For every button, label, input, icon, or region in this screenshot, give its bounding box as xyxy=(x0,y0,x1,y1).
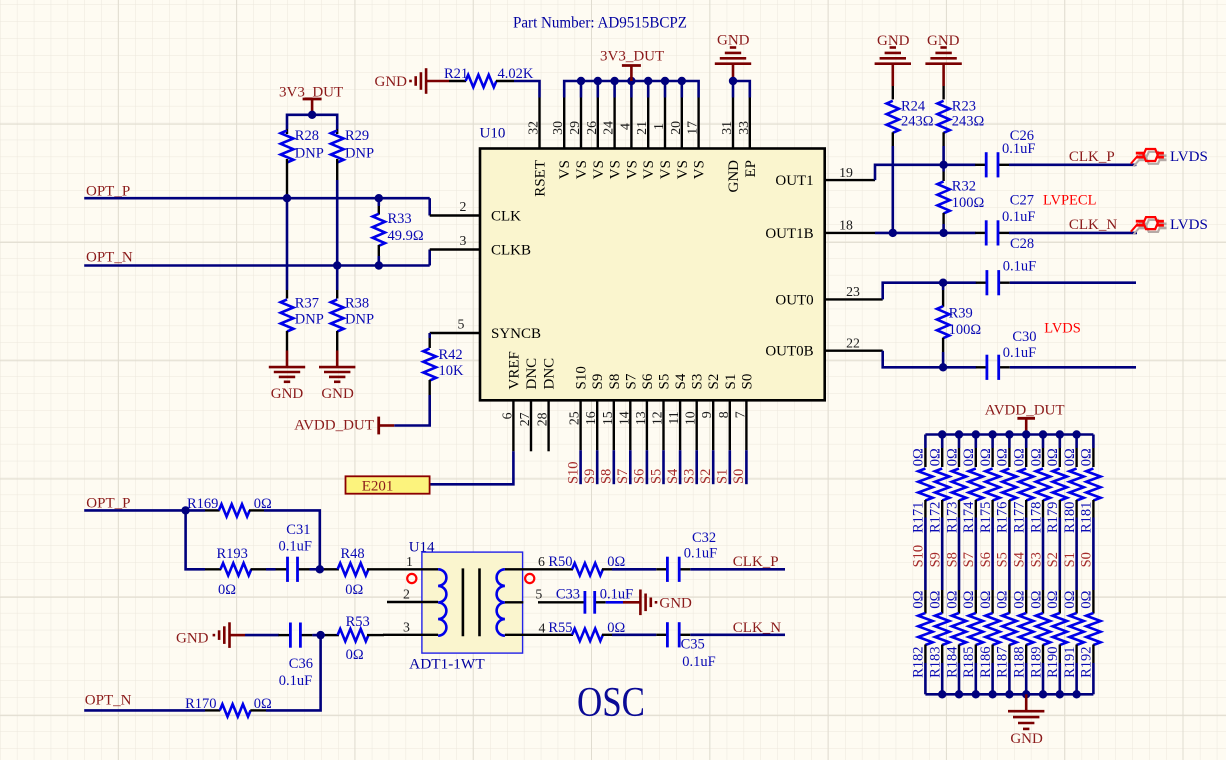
svg-text:S6: S6 xyxy=(632,469,648,484)
svg-text:S7: S7 xyxy=(615,469,631,484)
phase dot left xyxy=(407,574,416,583)
secondary winding xyxy=(497,569,505,635)
svg-text:S9: S9 xyxy=(928,552,944,567)
pin 6 VREF xyxy=(512,400,514,451)
resistor R37 xyxy=(286,290,288,299)
pin 29 VS xyxy=(580,98,582,149)
svg-text:S5: S5 xyxy=(995,552,1011,567)
svg-text:GND: GND xyxy=(659,596,692,612)
pin 5 SYNCB xyxy=(430,332,480,334)
svg-text:243Ω: 243Ω xyxy=(901,114,934,130)
pin 30 VS xyxy=(563,98,565,149)
svg-text:R29: R29 xyxy=(345,128,369,144)
svg-text:R48: R48 xyxy=(341,546,365,562)
resistor R193 xyxy=(205,568,221,570)
svg-text:R37: R37 xyxy=(295,295,319,311)
phase dot right xyxy=(525,574,534,583)
svg-text:13: 13 xyxy=(633,411,648,425)
junction bottom rail xyxy=(1005,690,1013,698)
svg-text:R193: R193 xyxy=(217,546,248,562)
wire net S7 xyxy=(629,450,632,484)
svg-text:30: 30 xyxy=(550,121,565,135)
wire to bottom rail xyxy=(1075,663,1078,694)
svg-text:14: 14 xyxy=(616,411,631,425)
primary winding xyxy=(438,569,446,635)
svg-text:S2: S2 xyxy=(1045,552,1061,567)
svg-text:S10: S10 xyxy=(911,545,927,568)
junction on VS rail xyxy=(661,77,669,85)
svg-text:S3: S3 xyxy=(1028,552,1044,567)
svg-text:0Ω: 0Ω xyxy=(911,448,927,466)
resistor R24 xyxy=(892,86,894,99)
resistor R180 0ohm xyxy=(1075,435,1078,449)
pin 24 VS xyxy=(613,98,615,149)
wire node S1 xyxy=(1075,518,1078,591)
resistor R21 xyxy=(449,80,466,82)
resistor R189 0ohm xyxy=(1042,590,1044,614)
wire to bottom rail xyxy=(1008,663,1011,694)
svg-text:VS: VS xyxy=(608,160,624,179)
junction top rail xyxy=(988,430,996,438)
svg-text:0Ω: 0Ω xyxy=(1012,590,1028,608)
wire CLK_P to port xyxy=(1009,164,1136,167)
wire R193 branch xyxy=(186,510,205,569)
wire node S8 xyxy=(958,518,961,591)
pin 13 S6 xyxy=(646,400,648,450)
resistor R39 xyxy=(942,283,945,290)
svg-text:0.1uF: 0.1uF xyxy=(682,654,715,670)
svg-text:0.1uF: 0.1uF xyxy=(1003,345,1036,361)
svg-text:27: 27 xyxy=(517,412,532,426)
wire OUT1 to CLK_P xyxy=(875,165,976,180)
svg-text:0Ω: 0Ω xyxy=(1028,590,1044,608)
wire R29 to OPT_N crossing xyxy=(336,180,339,266)
junction bottom rail xyxy=(1039,690,1047,698)
svg-text:10: 10 xyxy=(683,411,698,425)
capacitor C26 xyxy=(975,164,986,166)
svg-text:C36: C36 xyxy=(289,656,313,672)
resistor R170 xyxy=(205,709,220,711)
svg-text:DNC: DNC xyxy=(524,358,540,390)
pin 7 S0 xyxy=(745,400,747,450)
svg-text:9: 9 xyxy=(699,411,714,418)
svg-text:C28: C28 xyxy=(1010,236,1034,252)
svg-text:VREF: VREF xyxy=(506,351,522,389)
svg-text:VS: VS xyxy=(658,160,674,179)
svg-text:VS: VS xyxy=(557,160,573,179)
wire R37 column xyxy=(286,198,289,290)
svg-text:R53: R53 xyxy=(346,614,370,630)
resistor R48 xyxy=(324,568,339,570)
wire to bottom rail xyxy=(1042,663,1045,694)
svg-text:S2: S2 xyxy=(698,469,714,484)
svg-text:CLK_P: CLK_P xyxy=(1069,149,1115,165)
wire to bottom rail xyxy=(941,663,944,694)
capacitor C31 xyxy=(276,568,288,570)
svg-text:R55: R55 xyxy=(548,620,572,636)
pin 22 OUT0B xyxy=(825,350,883,352)
svg-text:5: 5 xyxy=(458,317,465,332)
svg-text:0Ω: 0Ω xyxy=(1045,590,1061,608)
svg-text:0Ω: 0Ω xyxy=(928,448,944,466)
pin 31 GND xyxy=(732,98,734,149)
wire net S1 xyxy=(728,450,731,484)
svg-text:0.1uF: 0.1uF xyxy=(1002,141,1035,157)
svg-text:19: 19 xyxy=(839,165,853,180)
svg-text:CLK_P: CLK_P xyxy=(733,554,779,570)
wire node S2 xyxy=(1059,518,1062,591)
svg-text:VS: VS xyxy=(675,160,691,179)
svg-text:0Ω: 0Ω xyxy=(944,448,960,466)
svg-text:0.1uF: 0.1uF xyxy=(279,538,312,554)
svg-text:S7: S7 xyxy=(623,373,639,389)
pin 8 S1 xyxy=(729,400,731,450)
svg-text:6: 6 xyxy=(499,412,514,419)
pin 5 of U14 xyxy=(505,601,523,603)
connector LVDS (CLK_P) xyxy=(1134,152,1167,167)
svg-text:S0: S0 xyxy=(1079,552,1095,567)
resistor R185 0ohm xyxy=(975,590,977,614)
svg-text:GND: GND xyxy=(271,386,304,402)
svg-text:GND: GND xyxy=(726,160,742,193)
svg-text:15: 15 xyxy=(600,411,615,425)
svg-text:0Ω: 0Ω xyxy=(978,590,994,608)
pin 28 DNC xyxy=(547,400,549,451)
wire R42 to AVDD_DUT xyxy=(394,395,430,426)
svg-text:0Ω: 0Ω xyxy=(1079,590,1095,608)
resistor R179 0ohm xyxy=(1059,435,1062,449)
pin 6 of U14 xyxy=(505,568,547,570)
svg-text:LVDS: LVDS xyxy=(1170,217,1208,233)
pin 16 S9 xyxy=(596,400,598,450)
ground GND under R38 xyxy=(336,351,339,368)
svg-text:0Ω: 0Ω xyxy=(944,590,960,608)
svg-text:R39: R39 xyxy=(949,305,973,321)
capacitor C28 xyxy=(976,282,987,284)
svg-text:DNC: DNC xyxy=(542,358,558,390)
svg-text:S4: S4 xyxy=(665,468,681,484)
ground GND (array) xyxy=(1025,694,1028,711)
svg-text:R50: R50 xyxy=(548,554,572,570)
svg-text:7: 7 xyxy=(732,411,747,418)
wire OPT_P corner to CLK xyxy=(428,198,431,215)
pin 25 S10 xyxy=(579,400,581,450)
resistor R184 0ohm xyxy=(958,590,960,614)
junction bottom rail xyxy=(1072,690,1080,698)
svg-text:LVDS: LVDS xyxy=(1044,321,1081,337)
svg-text:GND: GND xyxy=(1010,731,1043,747)
svg-text:11: 11 xyxy=(666,411,681,424)
svg-text:S1: S1 xyxy=(715,469,731,484)
wire node S0 xyxy=(1092,518,1095,591)
svg-text:S10: S10 xyxy=(574,366,590,389)
wire C32 to CLK_P xyxy=(690,568,785,571)
junction top rail xyxy=(1005,430,1013,438)
wire to bottom rail xyxy=(958,663,961,694)
svg-text:OPT_N: OPT_N xyxy=(86,250,133,266)
svg-text:20: 20 xyxy=(668,121,683,135)
resistor R174 0ohm xyxy=(974,435,977,449)
svg-text:23: 23 xyxy=(846,284,860,299)
svg-text:0.1uF: 0.1uF xyxy=(1003,258,1036,274)
wire node S6 xyxy=(991,518,994,591)
wire R28 column upper xyxy=(286,114,289,130)
junction on VS rail xyxy=(644,77,652,85)
svg-text:DNP: DNP xyxy=(295,146,324,162)
svg-text:EP: EP xyxy=(743,160,759,178)
pin 19 OUT1 xyxy=(825,179,875,181)
svg-text:R42: R42 xyxy=(439,347,463,363)
wire node S3 xyxy=(1042,518,1045,591)
resistor R29 xyxy=(336,129,338,134)
svg-text:OUT1: OUT1 xyxy=(775,173,813,189)
capacitor C36 xyxy=(278,634,290,636)
svg-text:R38: R38 xyxy=(345,295,369,311)
wire R169 corner down xyxy=(264,510,320,569)
svg-text:6: 6 xyxy=(538,554,545,569)
resistor R171 0ohm xyxy=(924,435,927,449)
svg-text:C32: C32 xyxy=(692,530,716,546)
svg-text:5: 5 xyxy=(535,586,542,601)
svg-text:29: 29 xyxy=(567,121,582,135)
wire array bottom rail xyxy=(925,693,1093,696)
svg-text:S7: S7 xyxy=(961,552,977,567)
pin 14 S7 xyxy=(629,400,631,450)
junction bottom rail xyxy=(955,690,963,698)
resistor R178 0ohm xyxy=(1042,435,1045,449)
wire node S9 xyxy=(941,518,944,591)
svg-text:100Ω: 100Ω xyxy=(952,195,985,211)
svg-text:OUT0B: OUT0B xyxy=(765,344,813,360)
wire net S9 xyxy=(596,450,599,484)
wire net S5 xyxy=(662,450,665,484)
svg-text:S5: S5 xyxy=(657,374,673,390)
svg-text:243Ω: 243Ω xyxy=(952,114,985,130)
wire OPT_P osc xyxy=(84,509,205,512)
wire VS bus rail xyxy=(564,81,698,98)
pin 4 of U14 xyxy=(505,634,538,636)
wire OUT1B to CLK_N xyxy=(875,232,976,235)
resistor R42 xyxy=(429,338,431,348)
svg-text:0Ω: 0Ω xyxy=(1012,448,1028,466)
svg-text:100Ω: 100Ω xyxy=(949,322,982,338)
junction top rail xyxy=(1022,430,1030,438)
svg-text:26: 26 xyxy=(584,121,599,135)
resistor R175 0ohm xyxy=(991,435,994,449)
wire VREF to E201 xyxy=(430,451,514,484)
svg-text:S8: S8 xyxy=(944,552,960,567)
svg-text:GND: GND xyxy=(717,32,750,48)
resistor R169 xyxy=(205,509,220,511)
svg-text:3: 3 xyxy=(403,619,410,634)
wire net S2 xyxy=(712,450,715,484)
wire R50 to C32 xyxy=(612,568,656,571)
svg-text:S0: S0 xyxy=(731,469,747,484)
pin 15 S8 xyxy=(613,400,615,450)
capacitor C30 xyxy=(976,366,987,368)
resistor R190 0ohm xyxy=(1059,590,1061,614)
svg-text:DNP: DNP xyxy=(295,312,324,328)
pin 2 CLK xyxy=(430,214,480,216)
svg-text:2: 2 xyxy=(403,587,410,602)
svg-text:CLK: CLK xyxy=(491,209,521,225)
svg-text:0Ω: 0Ω xyxy=(928,590,944,608)
pin 11 S4 xyxy=(679,400,681,450)
wire CLK_N to port xyxy=(1009,232,1137,235)
wire OUT0B down to C30 line xyxy=(883,351,977,368)
svg-text:U10: U10 xyxy=(480,126,506,142)
svg-text:0Ω: 0Ω xyxy=(218,582,236,598)
svg-text:S5: S5 xyxy=(648,469,664,484)
svg-text:DNP: DNP xyxy=(345,312,374,328)
pin 17 VS xyxy=(697,98,699,149)
svg-text:Part Number: AD9515BCPZ: Part Number: AD9515BCPZ xyxy=(513,14,687,32)
wire R170 corner up to C36 node xyxy=(266,635,321,710)
svg-text:49.9Ω: 49.9Ω xyxy=(388,228,424,244)
wire R21 to RSET pin 32 xyxy=(514,81,540,98)
svg-text:C30: C30 xyxy=(1012,329,1036,345)
resistor R192 0ohm xyxy=(1092,590,1094,614)
pin 12 S5 xyxy=(662,400,664,450)
wire C28 out xyxy=(1010,281,1136,284)
svg-text:VS: VS xyxy=(641,160,657,179)
svg-text:S10: S10 xyxy=(565,461,581,484)
capacitor C27 xyxy=(975,232,986,234)
resistor R38 xyxy=(336,266,339,291)
pin 26 VS xyxy=(597,98,599,149)
svg-text:S2: S2 xyxy=(706,374,722,390)
svg-text:GND: GND xyxy=(176,631,209,647)
svg-text:0.1uF: 0.1uF xyxy=(279,673,312,689)
wire net S3 xyxy=(695,450,698,484)
pin 1 of U14 xyxy=(388,568,438,570)
svg-text:S8: S8 xyxy=(599,469,615,484)
svg-text:4: 4 xyxy=(539,620,546,635)
wire R24 to OUT1B xyxy=(891,146,894,233)
wire SYNCB to R42 xyxy=(428,333,431,338)
svg-text:25: 25 xyxy=(567,411,582,425)
svg-text:R23: R23 xyxy=(952,99,976,115)
svg-text:SYNCB: SYNCB xyxy=(491,326,541,342)
svg-text:2: 2 xyxy=(460,199,467,214)
wire OUT0 up to C28 line xyxy=(883,283,977,300)
svg-text:21: 21 xyxy=(634,121,649,135)
junction top rail xyxy=(972,430,980,438)
wire OPT_P xyxy=(84,197,430,200)
svg-text:0Ω: 0Ω xyxy=(961,448,977,466)
resistor R181 0ohm xyxy=(1092,435,1095,449)
svg-text:S4: S4 xyxy=(1012,551,1028,567)
svg-text:OUT0: OUT0 xyxy=(775,292,813,308)
wire OPT_N xyxy=(84,264,430,267)
svg-text:AVDD_DUT: AVDD_DUT xyxy=(294,418,374,434)
wire R23 to CLK_P node xyxy=(942,146,945,165)
wire C30 out xyxy=(1010,366,1136,369)
svg-text:OUT1B: OUT1B xyxy=(765,226,813,242)
svg-text:1: 1 xyxy=(651,123,666,130)
svg-text:0Ω: 0Ω xyxy=(978,448,994,466)
svg-text:0Ω: 0Ω xyxy=(1045,448,1061,466)
svg-text:0Ω: 0Ω xyxy=(346,647,364,663)
svg-text:31: 31 xyxy=(719,121,734,135)
wire net S8 xyxy=(612,450,615,484)
svg-text:C33: C33 xyxy=(556,586,580,602)
svg-text:1: 1 xyxy=(406,554,413,569)
junction bottom rail xyxy=(1056,690,1064,698)
wire to bottom rail xyxy=(924,663,927,694)
svg-text:R170: R170 xyxy=(185,696,216,712)
wire 3V3 top rail left xyxy=(287,114,337,117)
pin 21 VS xyxy=(647,98,649,149)
svg-text:4.02K: 4.02K xyxy=(498,66,534,82)
svg-text:0.1uF: 0.1uF xyxy=(600,586,633,602)
junction top rail xyxy=(1056,430,1064,438)
svg-text:ADT1-1WT: ADT1-1WT xyxy=(409,656,485,672)
wire net S6 xyxy=(646,450,649,484)
pin 33 EP xyxy=(749,98,751,149)
wire to bottom rail xyxy=(991,663,994,694)
svg-text:S9: S9 xyxy=(582,469,598,484)
transformer U14 body xyxy=(422,552,523,653)
svg-text:OSC: OSC xyxy=(577,680,645,726)
svg-text:S6: S6 xyxy=(640,373,656,389)
no-ERC / test point E201 xyxy=(346,476,430,493)
junction on VS rail xyxy=(678,77,686,85)
wire to bottom rail xyxy=(974,663,977,694)
resistor R53 xyxy=(325,634,339,636)
svg-text:24: 24 xyxy=(601,121,616,135)
svg-text:0Ω: 0Ω xyxy=(1062,590,1078,608)
junction bottom rail xyxy=(972,690,980,698)
svg-text:33: 33 xyxy=(736,121,751,135)
wire GND rail pins 31 33 xyxy=(733,81,750,98)
junction top rail xyxy=(938,430,946,438)
junction on VS rail xyxy=(594,77,602,85)
svg-text:18: 18 xyxy=(839,218,853,233)
svg-text:16: 16 xyxy=(583,411,598,425)
junction on VS rail xyxy=(627,77,635,85)
resistor R32 xyxy=(942,165,945,172)
svg-text:OPT_N: OPT_N xyxy=(85,693,132,709)
svg-text:AVDD_DUT: AVDD_DUT xyxy=(985,403,1065,419)
junction bottom rail xyxy=(1022,690,1030,698)
svg-text:E201: E201 xyxy=(362,479,394,495)
svg-text:0Ω: 0Ω xyxy=(1079,448,1095,466)
wire C36 to node xyxy=(312,634,325,637)
wire R29 column upper xyxy=(336,114,339,130)
wire node S5 xyxy=(1008,518,1011,591)
capacitor C35 xyxy=(656,634,667,636)
IC U10 body AD9515 xyxy=(480,149,825,401)
svg-text:R24: R24 xyxy=(901,99,926,115)
svg-text:GND: GND xyxy=(321,386,354,402)
wire GND to C36 xyxy=(245,634,279,637)
svg-text:S9: S9 xyxy=(590,374,606,390)
svg-text:R169: R169 xyxy=(187,496,218,512)
svg-text:32: 32 xyxy=(526,121,541,135)
svg-text:0Ω: 0Ω xyxy=(1028,448,1044,466)
ground GND power (right of C33) xyxy=(623,601,640,604)
svg-text:R33: R33 xyxy=(388,211,412,227)
pin 10 S3 xyxy=(696,400,698,450)
wire to bottom rail xyxy=(1025,663,1028,694)
capacitor C33 xyxy=(538,601,585,603)
resistor R172 0ohm xyxy=(941,435,944,449)
pin 3 CLKB xyxy=(430,248,480,250)
pin 32 RSET xyxy=(538,98,540,149)
resistor R188 0ohm xyxy=(1025,590,1027,614)
wire node S7 xyxy=(974,518,977,591)
